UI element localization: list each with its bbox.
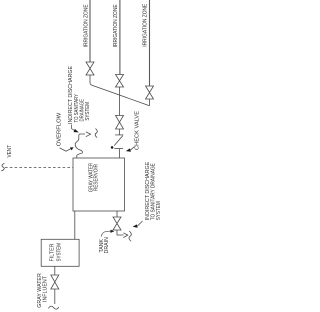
wire irrigation branch 3 upper bbox=[149, 0, 151, 86]
wire influent lower bbox=[54, 289, 56, 304]
svg-text:RESERVOIR: RESERVOIR bbox=[93, 164, 99, 191]
vent squiggle bbox=[1, 163, 4, 171]
tank drain open arrow bbox=[123, 233, 127, 238]
wire stub into reservoir bbox=[119, 149, 121, 158]
wire tank drain upper bbox=[116, 211, 118, 217]
check valve flap bbox=[114, 136, 123, 146]
valve V1 bowtie bbox=[86, 62, 94, 75]
check valve pivot dot bbox=[111, 146, 114, 149]
valve V5 bowtie bbox=[51, 275, 59, 289]
wire branch 1 lower bbox=[89, 75, 91, 83]
wire irrigation branch 1 upper bbox=[89, 0, 91, 62]
check valve swing tick bbox=[115, 134, 123, 136]
tank drain air-gap squiggle bbox=[129, 231, 131, 241]
svg-text:VENT: VENT bbox=[7, 145, 13, 158]
svg-text:INFLUENT: INFLUENT bbox=[42, 276, 48, 302]
svg-text:SYSTEM: SYSTEM bbox=[156, 201, 161, 220]
svg-text:SYSTEM: SYSTEM bbox=[85, 102, 91, 121]
overflow air-gap squiggle bbox=[95, 129, 97, 138]
wire influent upper bbox=[54, 266, 56, 275]
influent break squiggle bbox=[49, 306, 59, 309]
svg-text:IRRIGATION ZONE: IRRIGATION ZONE bbox=[83, 4, 89, 48]
wire riser filter to reservoir bbox=[74, 211, 76, 239]
wire irrigation branch 2 upper bbox=[119, 0, 121, 75]
leader indirect discharge bottom bbox=[137, 221, 142, 226]
svg-text:OVERFLOW: OVERFLOW bbox=[56, 112, 62, 146]
overflow trap pipe bbox=[75, 134, 85, 158]
filter box bbox=[41, 239, 79, 266]
valve V3 bowtie bbox=[116, 116, 124, 130]
check valve hub tick bbox=[114, 148, 123, 150]
wire branch 2 lower bbox=[119, 129, 121, 135]
leader OVERFLOW arrow bbox=[60, 148, 72, 151]
wire header diagonal bbox=[90, 83, 150, 106]
svg-text:DRAIN: DRAIN bbox=[104, 237, 110, 254]
svg-text:FILTER: FILTER bbox=[49, 243, 55, 261]
reservoir tank box bbox=[73, 158, 125, 211]
overflow open arrow bbox=[86, 132, 91, 137]
svg-text:CHECK VALVE: CHECK VALVE bbox=[135, 110, 141, 150]
wire tank drain elbow bbox=[117, 230, 124, 235]
valve V2 bowtie bbox=[116, 75, 124, 88]
leader indirect discharge top bbox=[72, 125, 75, 131]
svg-text:SYSTEM: SYSTEM bbox=[56, 243, 62, 262]
leader CHECK VALVE arrow bbox=[130, 147, 134, 151]
valve V4 bowtie bbox=[146, 86, 154, 99]
svg-text:IRRIGATION ZONE: IRRIGATION ZONE bbox=[143, 3, 149, 47]
svg-text:IRRIGATION ZONE: IRRIGATION ZONE bbox=[113, 4, 119, 48]
vent dashed line bbox=[5, 167, 73, 169]
valve V6 bowtie bbox=[113, 217, 121, 230]
wire branch 2 middle bbox=[119, 87, 121, 116]
leader TANK DRAIN arrow bbox=[101, 231, 110, 236]
wire branch 3 lower bbox=[149, 99, 151, 106]
